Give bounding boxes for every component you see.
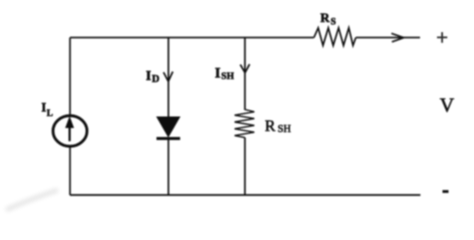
resistor RSH [235,110,255,138]
current source IL [53,116,87,147]
wire top-left horizontal (node A to Rs) [70,37,314,39]
arrow ID current direction [164,72,173,82]
label R_SH [265,118,292,135]
wire left vertical upper [69,38,71,116]
arrow output current direction [391,33,403,42]
arrow ISH current direction [240,64,249,73]
wire bottom horizontal [70,194,420,196]
diode D1 [157,117,181,139]
label I_L [41,100,53,120]
wire shunt branch lower [244,138,246,196]
label I_SH [215,66,235,82]
wire left vertical lower [69,146,71,195]
terminal minus [443,190,449,193]
label I_D [146,69,160,85]
wire diode branch upper [167,38,169,117]
resistor RS [314,28,356,46]
wire top-right to + terminal [356,37,420,39]
label R_S [320,10,336,28]
wire diode branch lower [167,140,169,195]
terminal plus [437,32,447,43]
wire shunt branch upper [244,38,246,110]
label V [440,94,455,116]
